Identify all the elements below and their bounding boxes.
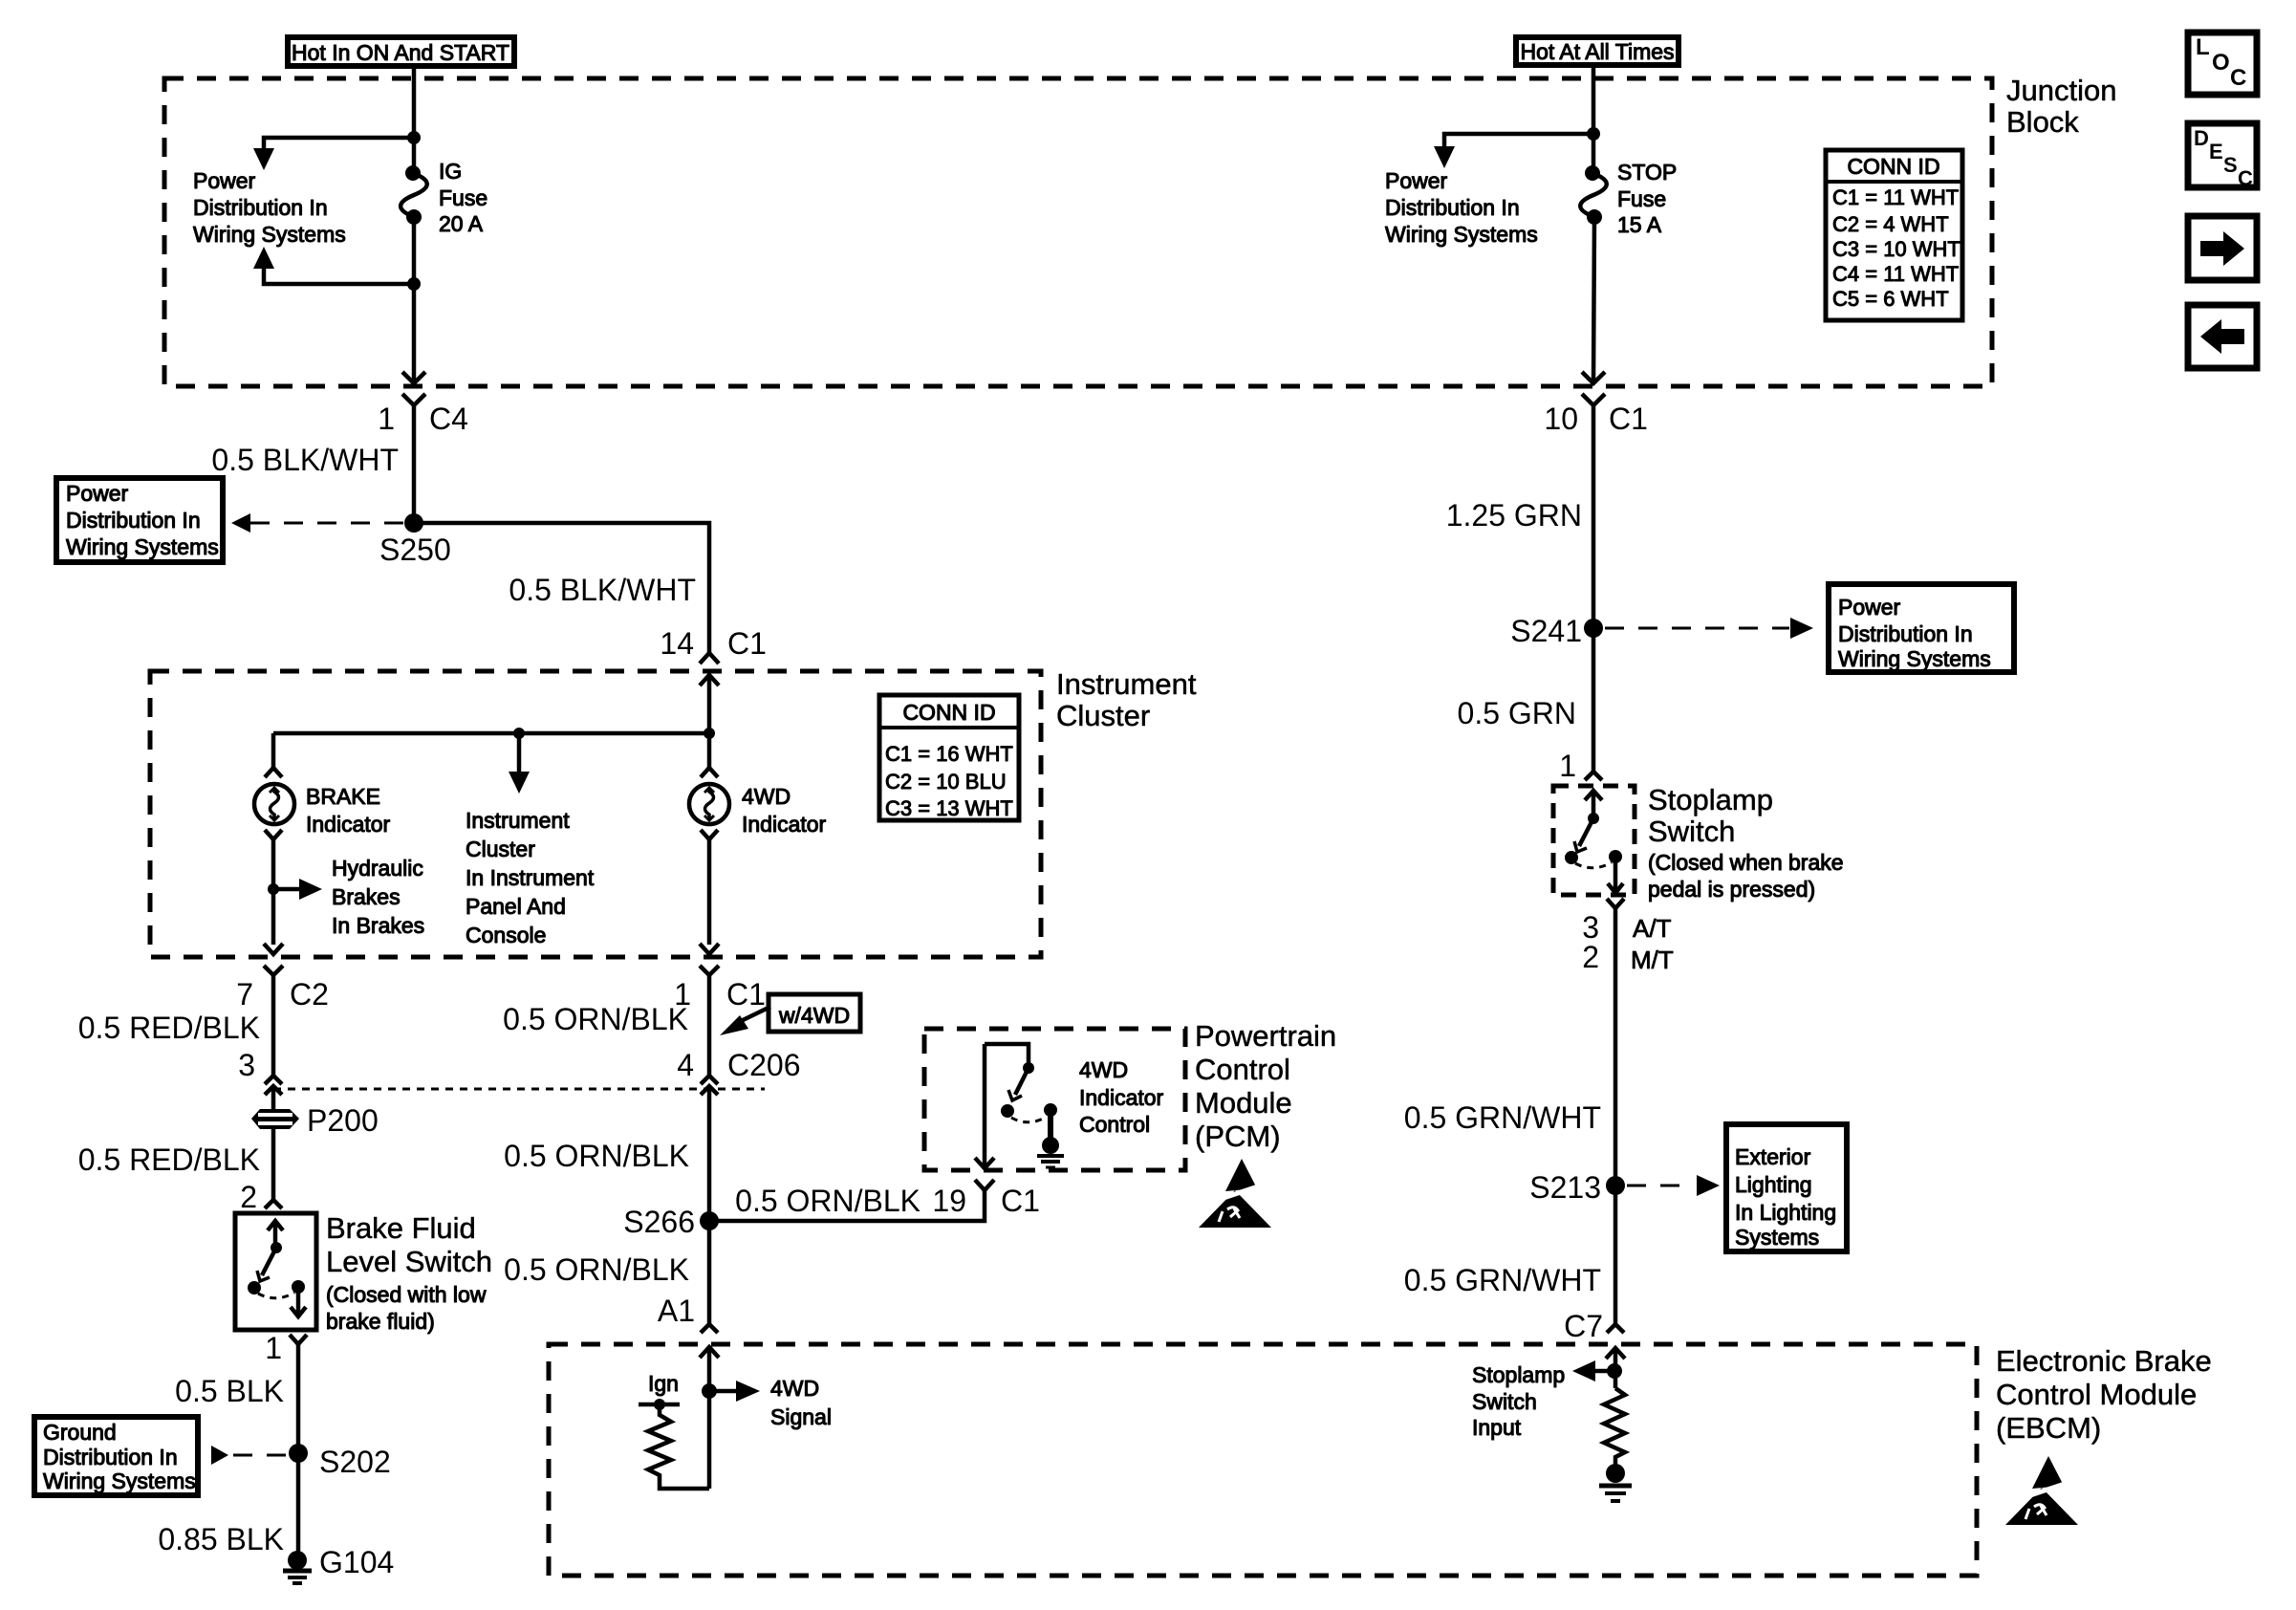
side label: Junction Block [2006,74,2116,139]
svg-text:2: 2 [1582,940,1599,974]
connector pin 1 (fork below switch box) [265,1331,307,1453]
svg-text:M/T: M/T [1631,946,1674,974]
label: Power Distribution In Wiring Systems (junction block right) [1385,168,1538,247]
label box "Hot In ON And START" [288,37,514,66]
svg-text:IG: IG [439,159,462,184]
label: IG Fuse 20 A [439,159,487,236]
svg-text:Switch: Switch [1472,1389,1537,1414]
svg-text:brake fluid): brake fluid) [326,1309,435,1334]
side label: Stoplamp Switch (Closed when brake pedal is pressed) [1648,783,1844,902]
svg-text:S241: S241 [1510,614,1582,648]
svg-text:S213: S213 [1529,1170,1601,1205]
arrow down into "Power Distribution" text (right) [1434,146,1455,168]
svg-text:0.5 BLK: 0.5 BLK [175,1374,284,1408]
svg-text:Instrument: Instrument [1056,667,1197,701]
svg-text:C4: C4 [429,402,468,436]
svg-text:Wiring Systems: Wiring Systems [66,534,219,559]
svg-text:4WD: 4WD [1079,1057,1128,1082]
svg-text:Electronic Brake: Electronic Brake [1996,1344,2212,1378]
svg-text:Switch: Switch [1648,815,1735,848]
svg-text:Fuse: Fuse [439,185,487,210]
splice S213 [1606,1176,1625,1195]
wire: S202 to ground G104 [296,1453,301,1553]
svg-text:Control: Control [1195,1053,1290,1086]
svg-text:Input: Input [1472,1415,1522,1440]
node: tap to Hydraulic Brakes note [268,883,279,895]
lamp socket fork (top of 4WD indicator) [701,768,718,777]
svg-text:1: 1 [1559,749,1576,783]
connector A1 (fork above EBCM boundary) [701,1324,718,1333]
svg-text:Powertrain: Powertrain [1195,1019,1336,1053]
stoplamp switch (dashed box with switch symbol) [1553,786,1635,895]
label box w/4WD with pointer arrow [720,994,860,1035]
svg-text:C2 = 4 WHT: C2 = 4 WHT [1832,212,1949,236]
svg-text:0.5 BLK/WHT: 0.5 BLK/WHT [211,443,399,477]
svg-text:Wiring Systems: Wiring Systems [1838,646,1991,671]
svg-text:D: D [2194,126,2209,150]
label: Hydraulic Brakes In Brakes [332,856,424,938]
svg-text:C1 = 11 WHT: C1 = 11 WHT [1832,185,1959,209]
svg-text:Wiring Systems: Wiring Systems [43,1469,196,1493]
svg-text:0.5 RED/BLK: 0.5 RED/BLK [78,1011,260,1045]
svg-text:Block: Block [2006,105,2079,139]
svg-text:Ign: Ign [648,1371,679,1396]
arrow (open) down at cluster bottom (4WD branch) [700,944,719,954]
svg-text:CONN ID: CONN ID [1847,154,1939,179]
svg-text:Console: Console [466,923,546,947]
brake fluid level switch (box with switch symbol) [235,1213,316,1330]
connector C7 (fork above EBCM boundary) [1607,1324,1624,1333]
svg-text:Brakes: Brakes [332,884,401,909]
node: bus corner at 4WD branch [704,728,715,739]
wire: feed from Hot In ON box down to IG fuse [412,66,417,172]
arrow (open) down at cluster bottom (BRAKE branch) [264,944,283,954]
svg-text:0.5 ORN/BLK: 0.5 ORN/BLK [504,1252,689,1287]
EBCM dashed box [549,1344,1977,1576]
svg-text:0.5 GRN/WHT: 0.5 GRN/WHT [1404,1263,1601,1297]
junction block (dashed box) [164,78,1992,386]
svg-text:Instrument: Instrument [466,808,570,833]
connector fork below stoplamp switch [1607,899,1624,1324]
svg-text:Systems: Systems [1735,1225,1819,1250]
svg-text:Power: Power [193,168,256,193]
svg-text:14: 14 [660,626,694,661]
lamp socket fork (bottom of BRAKE indicator) [265,830,282,839]
arrow left to Stoplamp Switch Input text [1572,1360,1614,1382]
PCM dashed box [924,1029,1185,1170]
connector 10 C1 (fork below junction block) [1544,394,1648,628]
wire: feed from Hot At All Times down to STOP fuse [1592,65,1596,171]
label box "Hot At All Times" [1516,37,1679,65]
svg-text:C4 = 11 WHT: C4 = 11 WHT [1832,262,1959,286]
label: pin 3 A/T [1582,910,1671,945]
svg-text:STOP: STOP [1617,160,1677,185]
label: Power Distribution In Wiring Systems (junction block left) [193,168,346,247]
wire: S250 right then down to cluster [414,523,709,653]
svg-text:O: O [2212,50,2230,76]
svg-text:1: 1 [265,1331,282,1365]
svg-text:0.5 GRN: 0.5 GRN [1458,696,1576,730]
svg-text:C1 = 16 WHT: C1 = 16 WHT [885,742,1013,766]
svg-text:C2 = 10 BLU: C2 = 10 BLU [885,770,1007,794]
wire: 4WD indicator to cluster bottom [707,839,712,945]
connector pin 1 (fork above stoplamp switch) [1559,749,1602,783]
svg-text:Distribution In: Distribution In [1385,195,1520,220]
dashed arrow from ref box to S202 [211,1446,289,1465]
arrow (open) up into EBCM (stoplamp input) [1606,1348,1625,1388]
connector 7 C2 (fork below cluster, left) [236,966,329,1076]
svg-text:Stoplamp: Stoplamp [1648,783,1773,816]
dashed arrow from S250 to ref box [231,513,404,533]
svg-text:Panel And: Panel And [466,894,566,919]
arrow down into "Power Distribution" text [253,148,274,170]
svg-text:Module: Module [1195,1086,1292,1120]
CONN ID table (instrument cluster) [879,695,1019,820]
wire: center branch down [517,733,522,773]
svg-text:4WD: 4WD [770,1376,819,1401]
arrow (open) down at junction block edge [402,372,425,383]
indicator lamp BRAKE (circle with filament) [254,784,294,824]
svg-text:S202: S202 [319,1445,391,1479]
svg-text:Stoplamp: Stoplamp [1472,1362,1565,1387]
ref box: Power Distribution In Wiring Systems (at S241) [1829,584,2014,672]
ref box: Power Distribution In Wiring Systems (at S250) [56,478,223,562]
svg-text:P200: P200 [307,1103,379,1138]
svg-text:Brake Fluid: Brake Fluid [326,1211,476,1245]
4WD indicator control switch (inside PCM) [985,1044,1057,1140]
connector 1 C4 (fork below boundary) [378,394,468,436]
svg-text:C7: C7 [1564,1309,1603,1343]
svg-text:Power: Power [1385,168,1448,193]
in-line connector C206 dashed boundary line [273,1088,765,1091]
pass-through grommet P200 [251,1109,299,1129]
wire: fuse to junction block bottom [412,217,417,383]
label: STOP Fuse 15 A [1617,160,1677,237]
svg-text:Control: Control [1079,1112,1150,1137]
svg-text:C: C [2230,65,2246,91]
svg-text:10: 10 [1544,402,1578,436]
arrow right to Hydraulic Brakes text [273,879,322,900]
svg-text:Cluster: Cluster [466,837,535,861]
svg-text:0.5 GRN/WHT: 0.5 GRN/WHT [1404,1100,1601,1135]
lamp socket fork (bottom of 4WD indicator) [701,830,718,839]
splice S202 [289,1444,308,1463]
node: bus tap for cluster feed [513,728,525,739]
splice S241 [1584,619,1603,638]
svg-text:4: 4 [677,1048,694,1082]
svg-text:3: 3 [238,1048,255,1082]
wire: return branch to below fuse [264,269,414,284]
arrow (open) up into EBCM [700,1347,719,1489]
svg-text:S266: S266 [623,1205,695,1239]
svg-text:Lighting: Lighting [1735,1172,1812,1197]
svg-text:In Lighting: In Lighting [1735,1200,1836,1225]
connector pin 3 (left, fork above C206 line) [238,1048,282,1084]
dashed arrow from S213 to ref box [1627,1175,1720,1196]
wire: branch to power distribution arrow (right) [1444,134,1593,146]
svg-text:Hot At All Times: Hot At All Times [1520,39,1674,64]
svg-text:4WD: 4WD [742,784,791,809]
arrow right to 4WD Signal text [709,1381,760,1402]
svg-text:(EBCM): (EBCM) [1996,1411,2101,1445]
svg-text:Junction: Junction [2006,74,2116,107]
svg-text:Power: Power [66,481,129,506]
CONN ID table (junction block) [1826,150,1962,320]
svg-text:(Closed with low: (Closed with low [326,1282,487,1307]
svg-text:0.5 ORN/BLK: 0.5 ORN/BLK [504,1139,689,1173]
svg-text:Distribution In: Distribution In [1838,621,1973,646]
svg-text:7: 7 [236,977,253,1012]
svg-text:C206: C206 [727,1048,801,1082]
wire: 4WD indicator branch [707,733,712,768]
ESD symbol (PCM) [1199,1159,1271,1228]
svg-text:19: 19 [932,1184,966,1218]
label: 4WD Indicator [742,784,827,837]
svg-text:Distribution In: Distribution In [193,195,328,220]
right margin nav box DESC [2188,123,2257,190]
wire: STOP fuse to junction block bottom [1593,217,1594,383]
svg-text:Ground: Ground [43,1420,117,1445]
svg-text:Wiring Systems: Wiring Systems [1385,222,1538,247]
wire: P200 down to brake fluid level switch [271,1129,276,1200]
right margin nav box arrow left [2188,305,2257,368]
svg-text:0.5 BLK/WHT: 0.5 BLK/WHT [509,573,696,607]
svg-text:Hydraulic: Hydraulic [332,856,423,881]
svg-text:Distribution In: Distribution In [43,1445,178,1469]
svg-text:S: S [2223,153,2238,177]
arrow (open) down at PCM boundary [975,1044,994,1168]
svg-text:20 A: 20 A [439,211,484,236]
ground symbol (EBCM internal) [1599,1464,1632,1501]
svg-text:0.85 BLK: 0.85 BLK [158,1522,284,1556]
connector pin 2 (fork above switch box) [240,1180,282,1214]
arrow (open) up into cluster [700,675,719,733]
node: stoplamp input tap [1607,1363,1622,1379]
svg-text:Signal: Signal [770,1404,832,1429]
wire: branch to power distribution arrow (left) [264,138,414,150]
svg-text:A1: A1 [658,1294,695,1328]
instrument cluster (dashed box) [150,671,1041,957]
svg-text:G104: G104 [319,1545,394,1579]
svg-text:0.5 RED/BLK: 0.5 RED/BLK [78,1142,260,1177]
svg-text:Indicator: Indicator [742,812,827,837]
svg-text:C5 = 6 WHT: C5 = 6 WHT [1832,287,1949,311]
svg-text:L: L [2196,34,2210,60]
svg-text:pedal is pressed): pedal is pressed) [1648,877,1815,902]
svg-text:CONN ID: CONN ID [902,700,995,725]
svg-text:In Brakes: In Brakes [332,913,424,938]
resistor (EBCM pull-up to Ign) [648,1404,709,1489]
svg-text:Hot In ON And START: Hot In ON And START [292,40,509,65]
splice S250 [404,513,423,533]
label: Stoplamp Switch Input [1472,1362,1565,1440]
svg-text:C2: C2 [290,977,329,1012]
dashed arrow from S241 to ref box [1605,618,1813,639]
side label: Brake Fluid Level Switch (Closed with low brake fluid) [326,1211,492,1334]
ESD symbol (EBCM) [2005,1456,2078,1525]
svg-text:Exterior: Exterior [1735,1144,1811,1169]
svg-text:E: E [2209,140,2223,163]
indicator lamp 4WD (circle with filament) [689,784,729,824]
ref box: Ground Distribution In Wiring Systems [34,1417,198,1495]
ref box: Exterior Lighting In Lighting Systems [1726,1124,1847,1251]
side label: Electronic Brake Control Module (EBCM) [1996,1344,2212,1445]
svg-text:Power: Power [1838,595,1901,620]
svg-text:(PCM): (PCM) [1195,1120,1281,1153]
label: 4WD Signal [770,1376,832,1429]
side label: Powertrain Control Module (PCM) [1195,1019,1336,1153]
svg-text:C1: C1 [726,977,766,1012]
ground symbol (inside PCM) [1037,1137,1064,1167]
side label: Instrument Cluster [1056,667,1197,732]
svg-text:(Closed when brake: (Closed when brake [1648,850,1844,875]
right margin nav box LOC [2188,33,2257,95]
fuse STOP 15A (element) [1580,165,1607,225]
arrow up from Power Distribution back to wire [253,247,274,269]
wire: C4 down to S250 [412,427,417,523]
label: pin 2 M/T [1582,940,1674,974]
arrow down into Instrument Cluster text [509,772,530,794]
connector arrow up (left, below C206 line) [265,1086,282,1109]
label: BRAKE Indicator [306,784,391,837]
svg-text:15 A: 15 A [1617,212,1662,237]
svg-text:BRAKE: BRAKE [306,784,380,809]
node: 4WD signal tap (inside EBCM) [702,1383,717,1399]
lamp socket fork (top of BRAKE indicator) [265,768,282,777]
ground G104 symbol [283,1551,312,1583]
svg-text:2: 2 [240,1180,257,1214]
svg-text:A/T: A/T [1633,914,1672,943]
svg-text:1.25 GRN: 1.25 GRN [1446,498,1582,533]
svg-text:C1: C1 [727,626,767,661]
connector 1 C1 (fork below cluster, middle) [674,966,766,1076]
arrow (open) down at junction block edge (right) [1582,372,1605,383]
node: branch junction on right feed [1587,127,1600,141]
wire: S241 down to stoplamp switch [1592,628,1596,772]
right margin nav box arrow right [2188,216,2257,280]
svg-text:Control Module: Control Module [1996,1378,2197,1411]
connector 4 C206 (middle) [677,1048,800,1095]
svg-text:Distribution In: Distribution In [66,508,201,533]
svg-text:0.5 ORN/BLK: 0.5 ORN/BLK [735,1184,921,1218]
svg-text:C: C [2238,166,2253,190]
connector 19 C1 (fork up below PCM) [932,1180,1040,1218]
wire: cluster internal bus [273,731,709,736]
svg-text:Fuse: Fuse [1617,186,1666,211]
svg-text:In Instrument: In Instrument [466,865,595,890]
svg-text:Cluster: Cluster [1056,699,1150,732]
wire: S266 branch right to PCM pin 19 [709,1190,985,1221]
svg-text:Level Switch: Level Switch [326,1245,492,1278]
label: 4WD Indicator Control [1079,1057,1164,1137]
svg-text:C1: C1 [1609,402,1648,436]
svg-text:1: 1 [378,402,395,436]
svg-text:Indicator: Indicator [1079,1085,1164,1110]
svg-text:Wiring Systems: Wiring Systems [193,222,346,247]
connector 14 C1 (fork above cluster boundary) [660,626,767,664]
svg-text:C3 = 10 WHT: C3 = 10 WHT [1832,237,1960,261]
svg-text:Indicator: Indicator [306,812,391,837]
node: junction below IG fuse [407,277,421,291]
node: branch junction on left feed [407,131,421,144]
svg-text:C3 = 13 WHT: C3 = 13 WHT [885,796,1013,820]
splice S266 [700,1211,719,1230]
svg-text:C1: C1 [1001,1184,1040,1218]
svg-text:0.5 ORN/BLK: 0.5 ORN/BLK [503,1002,688,1036]
wire: C206 to S266 to A1 (middle column) [707,1086,712,1324]
label: Instrument Cluster In Instrument Panel And Console [466,808,595,947]
svg-text:w/4WD: w/4WD [778,1003,850,1028]
fuse IG 20A (element) [401,165,427,225]
wire: BRAKE indicator to cluster bottom [271,839,276,945]
resistor (EBCM stoplamp input pull-down) [1604,1388,1625,1465]
wire: BRAKE indicator branch [271,733,276,768]
Ign rail with node [639,1399,680,1410]
svg-text:S250: S250 [379,533,451,567]
